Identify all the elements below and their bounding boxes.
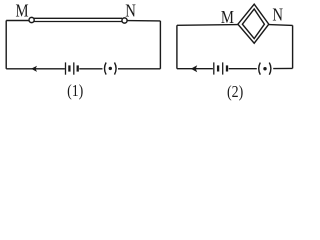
svg-text:(2): (2) bbox=[227, 83, 243, 102]
wire: right side of loop 2 bbox=[292, 25, 294, 68]
current arrow (loop 2) bbox=[191, 65, 197, 72]
wire: bottom-middle segment (battery to meter) bbox=[229, 68, 257, 70]
wire: bottom-left segment (to battery) bbox=[6, 68, 65, 70]
wire: bottom-left segment (to battery) bbox=[177, 68, 213, 70]
current arrow (loop 1) bbox=[31, 66, 37, 72]
wire: top-left segment to node M bbox=[6, 20, 29, 22]
meter (dot-in-arcs symbol, loop 1) bbox=[105, 63, 117, 75]
wire: left side of loop 1 bbox=[5, 21, 7, 69]
wire: top-right segment from diamond vertex N to corner bbox=[269, 24, 293, 27]
wire: bottom-middle segment (battery to meter) bbox=[79, 68, 102, 70]
wire: top-right segment from node N to corner bbox=[127, 20, 160, 22]
svg-text:N: N bbox=[272, 6, 283, 24]
node M (terminal circle) bbox=[29, 17, 34, 22]
rod MN (straight wire, double line) bbox=[34, 18, 122, 21]
wire: right side of loop 1 bbox=[159, 21, 161, 69]
battery (two cells, loop 1) bbox=[66, 62, 78, 74]
wire: top-left segment to diamond vertex M bbox=[177, 24, 238, 27]
diamond loop MN (double outline) bbox=[238, 4, 269, 43]
svg-text:M: M bbox=[16, 3, 29, 21]
node N (terminal circle) bbox=[122, 18, 127, 23]
meter (dot-in-arcs symbol, loop 2) bbox=[259, 63, 271, 75]
wire: left side of loop 2 bbox=[176, 25, 178, 68]
wire: bottom-right segment (meter to corner) bbox=[273, 67, 292, 69]
svg-text:N: N bbox=[125, 3, 136, 21]
svg-text:(1): (1) bbox=[67, 82, 83, 101]
svg-text:M: M bbox=[221, 9, 234, 27]
battery (two cells, loop 2) bbox=[214, 62, 227, 74]
wire: bottom-right segment (meter to corner) bbox=[118, 68, 160, 70]
